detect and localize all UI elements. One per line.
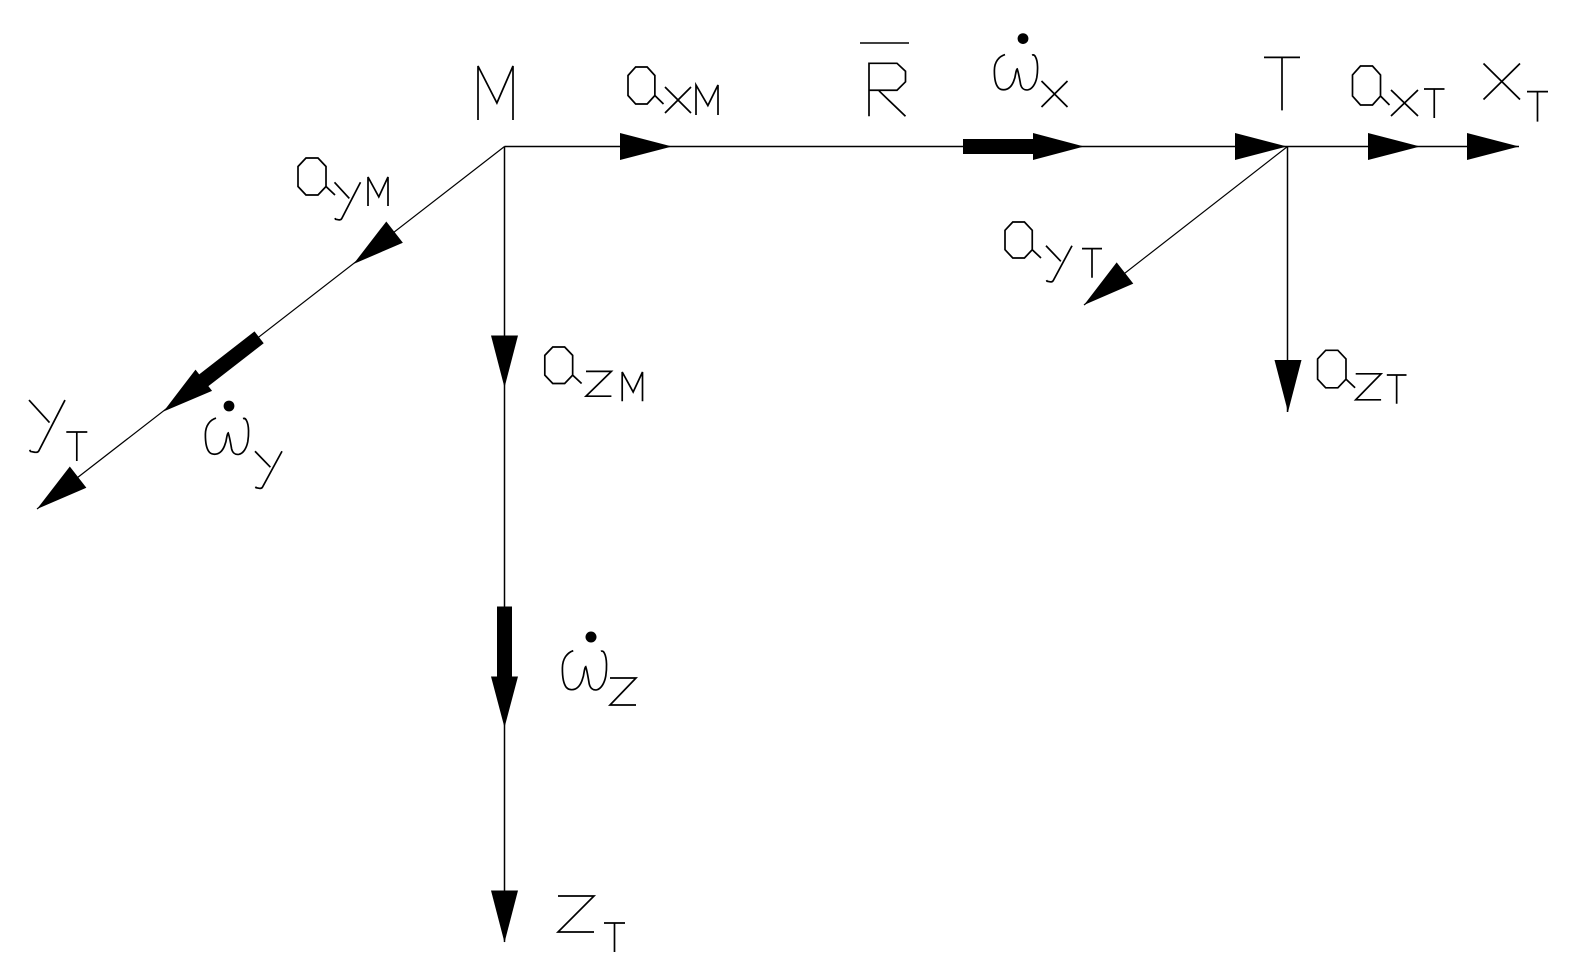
arrowhead a_yT [1076, 262, 1134, 315]
thick arrow omega_y [155, 327, 267, 422]
label omega_z [562, 651, 636, 705]
arrowhead a_ZT [1275, 360, 1302, 412]
label x_T [1484, 64, 1549, 122]
arrowhead y_T end [29, 466, 87, 519]
label omega_x dot [1018, 33, 1029, 44]
label a_yT [1005, 222, 1102, 282]
label omega_z dot [586, 632, 597, 643]
node M label [478, 66, 513, 120]
label omega_y dot [224, 401, 235, 412]
label a_ZT [1318, 350, 1407, 403]
wire vertical from T down [1287, 147, 1289, 413]
wire main horizontal M to xT [505, 146, 1520, 148]
label omega_x [994, 55, 1067, 107]
arrowhead a_xT [1368, 133, 1420, 160]
wire diagonal from M down-left to yT [37, 147, 505, 510]
label a_ZM [545, 347, 643, 401]
arrowhead a_xM [620, 133, 672, 160]
label y_T axis [29, 400, 87, 461]
label a_xT [1353, 66, 1445, 118]
arrowhead x_T end [1467, 133, 1519, 160]
arrowhead a_ZM [491, 336, 518, 388]
arrowhead at T [1235, 133, 1287, 160]
label R bar [860, 43, 909, 116]
thick arrow omega_z [491, 607, 518, 728]
label a_yM [298, 158, 388, 220]
node T label [1264, 57, 1300, 110]
label a_xM [628, 67, 718, 115]
arrowhead a_yM [345, 221, 403, 274]
label omega_y [205, 418, 282, 488]
wire diagonal from T down-left [1084, 147, 1288, 306]
label z_T axis [558, 896, 625, 952]
thick arrow omega_x [963, 133, 1084, 160]
arrowhead z_T end [491, 891, 518, 943]
wire vertical from M down to zT [504, 147, 506, 943]
